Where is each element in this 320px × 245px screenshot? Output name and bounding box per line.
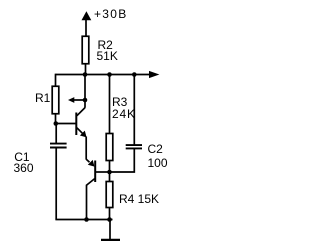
resistor R3	[106, 134, 113, 161]
Q2 base bar	[94, 161, 96, 183]
resistor R2 designator label	[98, 39, 113, 51]
wire top rail	[56, 74, 151, 76]
node junction wiper	[83, 98, 88, 103]
node junction R3 / R4 / Q2 base / C2	[107, 170, 112, 175]
capacitor C2 designator label	[148, 143, 163, 155]
wire Q2 base to R3/R4 node	[96, 171, 110, 173]
wire R4 bottom to bottom rail	[109, 208, 111, 220]
resistor R4	[106, 182, 113, 208]
node junction bottom rail / Q2 collector	[84, 217, 89, 222]
ground	[101, 220, 120, 240]
transistor Q1 (NPN)	[76, 108, 86, 138]
resistor R4 designator and value label	[119, 193, 159, 205]
transistor Q2 (PNP)	[86, 159, 95, 185]
wire C1 bottom to bottom rail	[55, 148, 57, 220]
potentiometer R1 wiper arrow	[68, 97, 85, 103]
node junction top rail / R3	[107, 72, 112, 77]
Q1 base bar	[75, 113, 77, 136]
value label +30V	[94, 8, 128, 20]
wire R2 bottom to top rail	[85, 64, 87, 75]
wire node to C2 bottom	[110, 149, 135, 172]
node junction bottom rail / R4 / ground	[107, 217, 112, 222]
wire Q1 emitter to Q2 emitter	[85, 137, 87, 160]
potentiometer R1 designator label	[35, 92, 50, 104]
resistor R2	[82, 36, 89, 64]
wire wiper node down to Q1 collector	[84, 100, 86, 108]
wire top rail corner down to R1	[55, 74, 57, 87]
capacitor C2 value label	[148, 157, 168, 169]
Q1 emitter lead with arrow	[77, 128, 84, 135]
wire R3 top to top rail	[109, 75, 111, 134]
capacitor C1	[50, 144, 67, 148]
wire bottom rail	[55, 219, 112, 221]
resistor R2 value label	[97, 50, 118, 62]
wire Q1 base	[56, 123, 76, 125]
capacitor C1 designator label	[14, 151, 29, 163]
wire node to R4	[109, 172, 111, 182]
power symbol +30V arrow	[82, 11, 92, 36]
wire Q2 collector down to bottom rail	[86, 185, 88, 220]
wire R1 bottom to base node	[55, 114, 57, 124]
wire R3 bottom to node	[109, 161, 111, 173]
capacitor C2	[126, 145, 142, 148]
output arrow	[149, 71, 159, 78]
resistor R3 designator label	[112, 96, 127, 108]
potentiometer R1 body	[52, 86, 59, 114]
wire base node down to C1	[55, 124, 57, 144]
capacitor C1 value label	[14, 162, 34, 174]
Q2 emitter lead with arrow	[86, 159, 90, 162]
wire C2 top to top rail	[133, 75, 135, 145]
node junction top rail / C2	[132, 72, 137, 77]
wire wiper to top rail	[84, 75, 86, 101]
node junction top rail / R2	[83, 72, 88, 77]
node junction Q1 base / R1 / C1	[54, 121, 59, 126]
resistor R3 value label	[112, 108, 136, 120]
Q2 collector lead	[86, 179, 94, 186]
Q1 collector lead	[77, 108, 85, 116]
